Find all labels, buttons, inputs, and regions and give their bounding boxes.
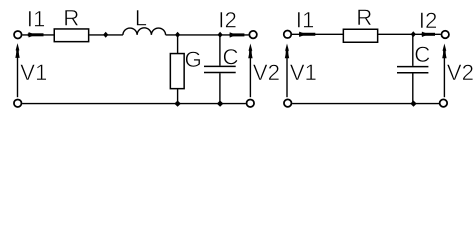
svg-text:V2: V2: [447, 60, 474, 85]
svg-text:I2: I2: [218, 8, 237, 33]
svg-text:I1: I1: [296, 7, 315, 32]
svg-text:G: G: [185, 47, 202, 72]
svg-text:I1: I1: [27, 6, 46, 31]
svg-text:V1: V1: [20, 60, 47, 85]
svg-text:L: L: [135, 6, 147, 31]
svg-text:C: C: [414, 42, 430, 67]
svg-text:R: R: [63, 6, 79, 31]
svg-text:V2: V2: [253, 60, 280, 85]
svg-text:V1: V1: [290, 60, 317, 85]
svg-text:C: C: [223, 44, 239, 69]
svg-text:R: R: [356, 5, 372, 30]
svg-text:I2: I2: [419, 8, 438, 33]
